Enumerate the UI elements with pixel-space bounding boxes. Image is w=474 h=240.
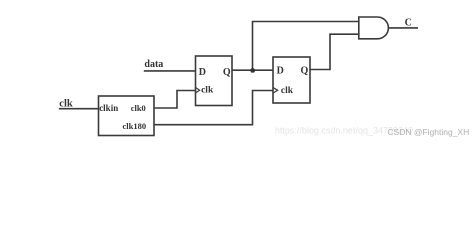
svg-text:Q: Q (301, 66, 309, 77)
svg-text:clk180: clk180 (123, 121, 147, 131)
svg-text:clk: clk (59, 98, 73, 109)
svg-text:data: data (144, 59, 163, 70)
svg-text:clk: clk (281, 86, 294, 96)
svg-text:Q: Q (223, 67, 231, 78)
svg-text:D: D (199, 67, 206, 78)
svg-text:clkin: clkin (99, 103, 118, 113)
svg-text:clk: clk (201, 86, 214, 96)
svg-text:CSDN @Fighting_XH: CSDN @Fighting_XH (387, 127, 469, 137)
svg-text:D: D (277, 66, 284, 77)
svg-text:C: C (405, 18, 412, 29)
svg-text:clk0: clk0 (131, 103, 146, 113)
